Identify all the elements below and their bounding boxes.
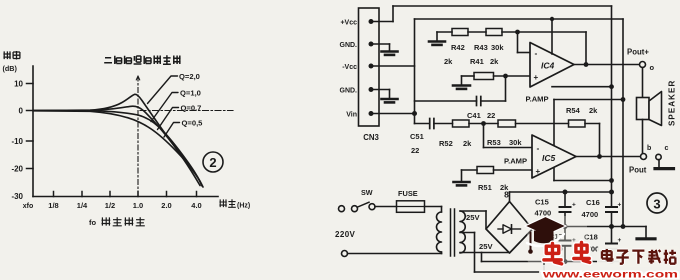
wire secondary top tap to bridge xyxy=(460,210,486,212)
logo character 虫 (second) xyxy=(574,243,590,263)
terminal Pout+ xyxy=(640,62,646,68)
svg-text:R41: R41 xyxy=(470,57,484,66)
switch SW blade xyxy=(357,202,369,207)
chart title 二阶低通幅频特性 xyxy=(104,58,112,63)
label Q=0.5 with leader xyxy=(164,123,180,138)
svg-text:R54: R54 xyxy=(566,106,581,115)
curve Q=2.0 xyxy=(33,94,200,185)
svg-text:xfo: xfo xyxy=(23,203,34,210)
svg-text:FUSE: FUSE xyxy=(398,189,418,198)
svg-text:-: - xyxy=(537,143,540,153)
svg-text:o: o xyxy=(650,63,655,72)
node C15 bottom / zero bus xyxy=(563,224,568,229)
wire C41 to R41 node xyxy=(481,100,506,102)
capacitor C16 xyxy=(606,206,617,208)
svg-text:30k: 30k xyxy=(509,138,522,147)
transformer secondary winding xyxy=(460,211,465,253)
capacitor C51 xyxy=(429,119,431,129)
svg-text:IC5: IC5 xyxy=(542,153,556,163)
svg-text:+: + xyxy=(618,237,622,244)
svg-text:SPEAKER: SPEAKER xyxy=(668,80,677,126)
wire switch to fuse xyxy=(375,206,397,208)
svg-text:GND.: GND. xyxy=(340,88,358,95)
svg-text:www.eeworm.com: www.eeworm.com xyxy=(541,270,678,280)
svg-text:22: 22 xyxy=(487,111,495,120)
switch contact xyxy=(369,204,375,210)
wire R41 to IC4 non-inverting input xyxy=(494,75,531,77)
wire R52 to node B xyxy=(469,123,498,125)
right rail 1 (from top rail) xyxy=(611,6,613,207)
wire feedback down to IC4 output xyxy=(585,32,587,65)
label Q=2.0 with leader xyxy=(148,76,178,104)
fuse FUSE xyxy=(397,201,425,213)
CN3 pin GND (upper) xyxy=(369,42,374,47)
wire +Vcc to top rail xyxy=(371,21,393,23)
logo text 电子下载站 xyxy=(602,249,613,261)
svg-text:SW: SW xyxy=(361,188,373,197)
svg-text:C51: C51 xyxy=(410,132,424,141)
wire down to R54 row and IC5 top xyxy=(553,100,555,146)
wire secondary bottom tap to bridge xyxy=(460,252,510,254)
svg-text:b: b xyxy=(647,145,651,152)
bridge diode symbol xyxy=(498,228,503,230)
ground (R41) xyxy=(453,84,470,87)
svg-text:C16: C16 xyxy=(586,198,600,207)
top rail (+ supply) xyxy=(393,5,612,7)
wire R51 to IC5 non-inverting input xyxy=(494,169,533,171)
svg-text:Vin: Vin xyxy=(346,112,357,119)
wire ground to R41 xyxy=(461,76,463,85)
svg-text:30k: 30k xyxy=(491,43,504,52)
watermark white halo xyxy=(527,216,587,266)
svg-text:1.0: 1.0 xyxy=(133,201,143,210)
terminal switch pole xyxy=(352,206,358,212)
wire R54 to IC5 output node xyxy=(585,123,600,125)
wire second rail to IC4 top xyxy=(551,19,553,54)
CN3 pin GND (lower) xyxy=(369,87,374,92)
svg-text:25V: 25V xyxy=(479,242,493,251)
resistor R54 xyxy=(569,120,586,127)
ground (lower GND pin) xyxy=(382,98,398,101)
CN3 pin -Vcc xyxy=(369,64,374,69)
x-axis ticks xyxy=(53,192,55,197)
svg-text:GND.: GND. xyxy=(340,42,358,49)
terminal 220V input lower xyxy=(342,251,348,257)
ground (R42 input divider) xyxy=(429,40,445,43)
svg-text:C41: C41 xyxy=(467,111,481,120)
svg-text:Q=2,0: Q=2,0 xyxy=(179,72,200,81)
svg-text:10: 10 xyxy=(14,80,23,89)
svg-text:R51: R51 xyxy=(478,183,492,192)
negative bus xyxy=(482,261,619,263)
transformer T1 primary winding xyxy=(437,212,442,252)
IC5 output wire xyxy=(576,156,641,158)
capacitor C15 xyxy=(564,192,566,207)
svg-text:c: c xyxy=(665,145,669,152)
wire node B to IC5 inverting input xyxy=(483,124,485,148)
wire C16 bottom lead xyxy=(611,212,613,227)
resistor R52 xyxy=(453,120,470,127)
svg-text:2k: 2k xyxy=(444,57,453,66)
svg-text:Q=0.7: Q=0.7 xyxy=(181,103,202,112)
wire bridge positive to top bus xyxy=(509,192,511,202)
label Q=1.0 with leader xyxy=(151,93,178,122)
wire Vin pin xyxy=(371,113,415,115)
fo vertical dash-dot line xyxy=(137,76,139,196)
svg-text:4700: 4700 xyxy=(582,210,599,219)
node zero bus / rail2 xyxy=(621,224,626,229)
svg-text:1/2: 1/2 xyxy=(105,201,115,210)
svg-text:2: 2 xyxy=(209,155,216,170)
svg-text:R52: R52 xyxy=(439,139,453,148)
chart x-axis xyxy=(33,196,218,198)
svg-text:CN3: CN3 xyxy=(363,133,379,142)
figure number 3 circle xyxy=(647,193,667,213)
ground (terminal c) xyxy=(658,160,660,168)
capacitor C41 row wire from Vin riser xyxy=(415,100,477,102)
node C18 bottom xyxy=(609,259,614,264)
zero-volt bus xyxy=(533,226,647,228)
svg-text:Pout: Pout xyxy=(629,166,647,175)
node Vin junction xyxy=(412,111,417,116)
svg-text:fo: fo xyxy=(89,218,96,227)
node C15 top xyxy=(563,190,568,195)
wire lower 220V to primary xyxy=(348,253,442,255)
wire -Vcc pin xyxy=(371,65,415,67)
x-axis unit 频率(Hz) xyxy=(219,199,226,207)
ground (upper GND pin) xyxy=(382,50,398,53)
wire ground to R51 xyxy=(461,170,463,182)
resistor R53 xyxy=(498,120,516,127)
wire C51 to R52 xyxy=(434,123,453,125)
svg-text:Pout+: Pout+ xyxy=(627,48,649,57)
figure number 2 circle xyxy=(203,152,223,172)
svg-text:IC4: IC4 xyxy=(541,61,555,71)
svg-text:2k: 2k xyxy=(463,139,472,148)
wire rail2 to R53/R54 node xyxy=(554,99,623,101)
connector CN3 xyxy=(359,8,380,126)
logo white swoosh xyxy=(527,234,564,246)
svg-text:+Vcc: +Vcc xyxy=(340,20,357,27)
wire lower GND pin to ground xyxy=(371,89,390,91)
transformer core xyxy=(450,209,452,256)
node feedback A xyxy=(515,30,520,35)
svg-text:8: 8 xyxy=(504,190,509,200)
y-axis ticks and labels xyxy=(27,83,34,85)
wire node A to IC4 inverting input xyxy=(517,32,519,53)
node C17 bottom xyxy=(563,259,568,264)
wire Vin node down to C51 xyxy=(414,114,416,124)
logo character 虫 (first) xyxy=(544,244,562,264)
svg-text:22: 22 xyxy=(411,146,419,155)
wire fuse to transformer primary xyxy=(425,206,442,208)
right rail 2 (from second rail) xyxy=(622,19,624,227)
wire R42-R43 xyxy=(468,31,486,33)
terminal c xyxy=(656,154,661,159)
CN3 pin +Vcc xyxy=(369,19,374,24)
logo graduation cap xyxy=(525,217,566,236)
resistor R43 xyxy=(486,29,502,36)
svg-text:C15: C15 xyxy=(535,198,549,207)
svg-text:3: 3 xyxy=(653,196,660,211)
svg-text:+: + xyxy=(534,73,539,82)
svg-text:(dB): (dB) xyxy=(3,64,18,73)
curve Q=0.7 xyxy=(33,111,202,187)
svg-text:-30: -30 xyxy=(11,192,23,201)
node C16 bottom / zero bus xyxy=(609,224,614,229)
label Q=0.7 with leader xyxy=(158,108,179,130)
IC4 output wire to Pout+ xyxy=(574,64,640,66)
svg-text:1/4: 1/4 xyxy=(77,201,88,210)
node R41/C41 junction xyxy=(503,74,508,79)
y-axis label 增益(dB) xyxy=(3,51,10,59)
IC5 negative supply wire xyxy=(553,169,555,181)
node IC5 output xyxy=(597,154,602,159)
svg-text:0: 0 xyxy=(19,107,24,116)
svg-text:+: + xyxy=(536,167,541,176)
svg-text:4.0: 4.0 xyxy=(191,201,201,210)
svg-text:R43: R43 xyxy=(474,43,488,52)
resistor R41 xyxy=(474,73,494,80)
chart y-axis xyxy=(32,66,34,197)
node IC4 output xyxy=(584,62,589,67)
vertical Vin riser to second rail xyxy=(414,19,416,114)
0dB dash-dot reference line xyxy=(140,110,233,112)
IC4 negative supply wire xyxy=(552,86,612,88)
svg-text:R53: R53 xyxy=(487,138,501,147)
ground (zero bus) xyxy=(645,227,647,238)
op-amp IC4 xyxy=(530,43,574,88)
resistor R42 xyxy=(452,29,468,36)
svg-text:P.AMP: P.AMP xyxy=(504,157,527,166)
svg-text:R42: R42 xyxy=(451,43,465,52)
curve Q=0.5 xyxy=(33,111,203,187)
wire bottom tap to negative bus xyxy=(481,253,483,262)
svg-text:-20: -20 xyxy=(11,165,23,174)
svg-text:P.AMP: P.AMP xyxy=(526,95,549,104)
resistor R51 xyxy=(477,167,494,174)
svg-text:-Vcc: -Vcc xyxy=(342,64,357,71)
bridge rectifier xyxy=(486,202,533,254)
wire R43 to feedback node xyxy=(502,31,586,33)
positive bus to filter caps xyxy=(510,191,612,193)
svg-text:1/8: 1/8 xyxy=(48,201,58,210)
wire secondary center tap xyxy=(460,232,475,234)
svg-text:25V: 25V xyxy=(466,213,480,222)
svg-text:2k: 2k xyxy=(490,57,499,66)
capacitor C41 xyxy=(476,97,478,106)
capacitor C18 xyxy=(611,227,613,244)
svg-text:+: + xyxy=(618,202,622,209)
terminal 220V input upper xyxy=(339,206,345,212)
capacitor C17 xyxy=(564,227,566,241)
second rail xyxy=(415,18,624,20)
svg-text:2k: 2k xyxy=(589,106,598,115)
node C16 top xyxy=(609,190,614,195)
svg-text:Q=0,5: Q=0,5 xyxy=(182,118,204,127)
wire R53 to R54 xyxy=(516,123,569,125)
svg-text:220V: 220V xyxy=(335,230,356,239)
CN3 pin Vin xyxy=(369,111,374,116)
speaker xyxy=(642,68,644,98)
wire ground to R42 xyxy=(436,32,438,41)
wire upper GND pin to ground xyxy=(371,43,390,45)
curve Q=1.0 xyxy=(33,106,202,185)
svg-text:+: + xyxy=(572,202,576,209)
svg-text:-10: -10 xyxy=(11,137,23,146)
ground (R51) xyxy=(454,181,470,184)
op-amp IC5 xyxy=(532,135,576,178)
node B (R52/R53/IC5 inv) xyxy=(481,121,486,126)
svg-text:2.0: 2.0 xyxy=(161,201,171,210)
svg-text:-: - xyxy=(535,48,538,58)
svg-text:Q=1,0: Q=1,0 xyxy=(180,88,201,97)
terminal b xyxy=(641,154,647,160)
svg-text:(Hz): (Hz) xyxy=(237,203,250,210)
